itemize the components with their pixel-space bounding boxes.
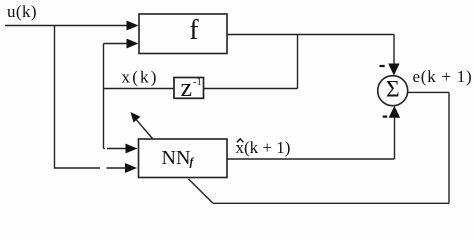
svg-text:x(k + 1): x(k + 1) [236, 138, 291, 157]
wire z-1 input from right [204, 88, 298, 90]
wire branch vertical from f output down to x(k) line [297, 35, 299, 89]
wire u branch vertical + bottom horizontal to NN_f input 2 [55, 26, 101, 169]
wire NN_f output horizontal [227, 158, 395, 160]
hat accent over x [237, 139, 244, 142]
wire vertical up into summer bottom [394, 117, 396, 159]
minus sign below summer [383, 115, 388, 117]
minus sign above summer [380, 65, 385, 67]
svg-text:Σ: Σ [386, 76, 400, 102]
wire vertical down into summer top [393, 35, 395, 65]
arrow into NN_f input 2 [125, 163, 137, 173]
wire bottom feedback horizontal [213, 202, 449, 204]
arrow into f input 1 [127, 21, 139, 31]
wire f input 2 horizontal [104, 43, 128, 45]
arrow adaptation head up-left [131, 112, 141, 123]
block NN_f [139, 139, 228, 178]
svg-text:x(k): x(k) [122, 67, 159, 86]
arrow into f input 2 [127, 39, 139, 49]
wire right feedback vertical [448, 92, 450, 203]
arrow up into summer bottom [389, 106, 400, 118]
arrow down into summer top [388, 64, 399, 76]
svg-text:-1: -1 [193, 77, 202, 88]
block z^-1 [174, 78, 204, 99]
wire NN_f input 1 stub [104, 148, 105, 150]
wire x(k) vertical bus [103, 44, 105, 149]
wire feedback diagonal into NN_f bottom [189, 179, 214, 203]
svg-text:f: f [189, 15, 199, 46]
wire f output horizontal [227, 34, 394, 36]
summer circle [378, 76, 408, 106]
wire u(k) input horizontal [5, 25, 128, 27]
wire NN_f input 2 segment after gap [107, 167, 127, 169]
wire summer output to e(k+1) [408, 91, 449, 93]
svg-text:e(k + 1): e(k + 1) [413, 67, 473, 86]
wire NN_f input 1 segment after gap [107, 148, 127, 150]
svg-text:NN: NN [162, 147, 191, 169]
wire adaptation diagonal out of NN_f top [136, 119, 153, 138]
svg-text:u(k): u(k) [7, 2, 37, 21]
wire x(k) horizontal into z-1 [104, 88, 175, 90]
arrow into NN_f input 1 [126, 144, 138, 154]
block f [139, 14, 227, 54]
svg-text:z: z [181, 73, 193, 102]
